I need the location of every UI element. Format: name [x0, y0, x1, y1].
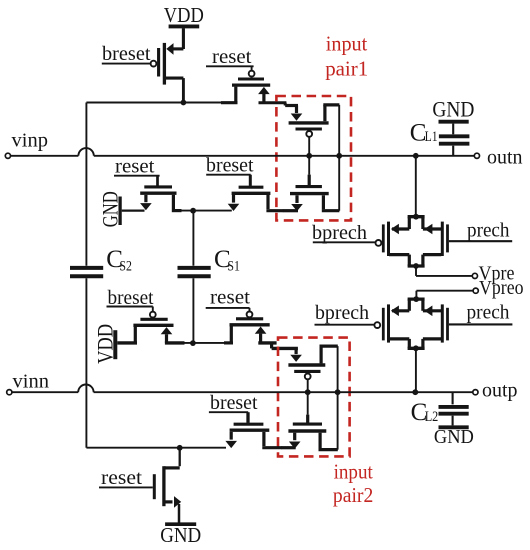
capacitor CL1 — [410, 119, 470, 156]
prech pair1 top node — [408, 214, 425, 220]
node dots on wire E inside pair2 — [305, 389, 341, 395]
wire outn node down to prech pair — [415, 156, 417, 215]
wire jog into input pair1 — [285, 103, 298, 106]
prech pair2 top node — [408, 296, 425, 302]
svg-text:input: input — [334, 460, 373, 484]
svg-text:bprech: bprech — [312, 223, 367, 244]
node dots on wire B inside pair1 — [306, 153, 342, 159]
wire CS1 down to row2 — [192, 278, 194, 343]
transistor M10 (breset NMOS, row1) — [206, 155, 283, 211]
transistor M6 (prech NMOS, pair1) — [423, 217, 448, 266]
transistor M13 (input pair2 PMOS) — [288, 346, 337, 392]
wire jog into input pair2 — [272, 343, 298, 349]
svg-text:VDD: VDD — [164, 3, 204, 27]
label vinp — [12, 131, 49, 152]
node dot outn branch — [413, 153, 419, 159]
node dot row2 — [190, 340, 196, 346]
power VDD (row2, rotated) — [93, 324, 118, 364]
label bprech (pair2) — [315, 303, 375, 325]
wire VDD to M1 — [182, 28, 185, 49]
transistor M3 (input pair1 PMOS) — [289, 105, 340, 156]
transistor M8 (prech NMOS, pair2) — [423, 299, 448, 348]
transistor M7 (bprech PMOS, pair2) — [374, 299, 409, 348]
transistor M11 (breset PMOS, row2) — [107, 288, 185, 343]
label prech (pair2) — [449, 303, 513, 325]
transistor M15 (breset NMOS, row3) — [209, 393, 282, 448]
transistor M1 (breset PMOS, top left) — [102, 43, 184, 103]
wire GND to M9 — [122, 210, 145, 212]
svg-text:vinp: vinp — [12, 131, 49, 152]
svg-text:bprech: bprech — [315, 303, 369, 324]
svg-text:reset: reset — [115, 156, 155, 177]
wire E (vinn to outp) with hopover — [12, 385, 473, 393]
prech pair1 bottom node — [408, 263, 425, 269]
ground GND (row1, rotated) — [98, 191, 123, 227]
ground GND (top right) — [432, 97, 474, 135]
label vinn — [13, 372, 50, 393]
ground GND (bottom) — [160, 523, 201, 547]
power VDD (top) — [164, 3, 204, 27]
node dot row3 — [177, 445, 183, 451]
label input pair1 — [325, 32, 368, 81]
wire and terminal Vpre — [416, 263, 515, 284]
svg-text:input: input — [326, 32, 368, 56]
svg-text:pair2: pair2 — [333, 483, 373, 507]
prech pair2 bottom node — [408, 345, 425, 351]
transistor M9 (reset NMOS, row1) — [114, 156, 182, 210]
terminal vinn — [7, 390, 12, 395]
transistor M2 (reset PMOS, top) — [206, 47, 286, 103]
wire row1 middle — [182, 210, 232, 212]
svg-text:outn: outn — [487, 147, 523, 168]
transistor M5 (bprech PMOS, pair1) — [376, 217, 410, 266]
transistor M16 (reset NMOS, bottom) — [99, 448, 181, 523]
wire node A horizontal — [86, 102, 236, 104]
wire node row1 down to CS1 — [192, 211, 194, 266]
label outn — [487, 147, 523, 168]
wire row2 middle — [185, 342, 225, 344]
transistor M4 (input pair1 NMOS) — [283, 156, 340, 211]
ground GND (below CL2) — [434, 426, 474, 448]
transistor M12 (reset PMOS, row2) — [206, 288, 277, 343]
svg-text:L2: L2 — [425, 409, 439, 425]
capacitor CS2 — [70, 246, 132, 276]
label prech (pair1) — [449, 220, 512, 241]
label input pair2 — [333, 460, 373, 507]
svg-text:L1: L1 — [425, 129, 438, 145]
capacitor CL2 — [411, 392, 469, 426]
svg-text:reset: reset — [101, 468, 143, 489]
wire prech pair2 to outp wire — [415, 348, 417, 392]
input pair2 dashed box — [278, 338, 350, 457]
wire left vertical (vinp/vinn column) — [85, 103, 87, 448]
svg-text:pair1: pair1 — [325, 57, 368, 81]
input pair1 dashed box — [276, 96, 351, 220]
svg-text:breset: breset — [102, 44, 151, 65]
svg-text:GND: GND — [432, 97, 474, 122]
svg-text:reset: reset — [210, 288, 251, 309]
svg-text:reset: reset — [212, 47, 252, 68]
terminal outn — [474, 153, 479, 158]
terminal vinp — [5, 153, 10, 158]
wire B (vinp to outn) with hopover — [11, 148, 475, 156]
svg-text:S1: S1 — [227, 258, 240, 274]
wire row3 horizontal — [86, 447, 226, 449]
terminal outp — [473, 390, 478, 395]
wire and terminal Vpreo — [416, 278, 523, 299]
svg-text:prech: prech — [467, 220, 510, 241]
svg-text:GND: GND — [434, 426, 474, 448]
svg-text:GND: GND — [160, 523, 201, 547]
node A junction dot — [181, 100, 187, 106]
wire pair2 right vertical — [337, 346, 339, 450]
svg-text:breset: breset — [210, 393, 258, 414]
svg-text:outp: outp — [482, 380, 518, 401]
svg-text:vinn: vinn — [13, 372, 50, 393]
node dot row1 — [190, 208, 196, 214]
transistor M14 (input pair2 NMOS) — [281, 392, 338, 449]
wire pair1 right vertical — [338, 105, 340, 211]
svg-text:S2: S2 — [119, 258, 131, 274]
capacitor CS1 — [178, 246, 240, 276]
svg-text:breset: breset — [206, 155, 254, 176]
label bprech (pair1) — [312, 223, 376, 244]
svg-text:Vpreo: Vpreo — [479, 278, 524, 299]
label outp — [482, 380, 518, 401]
svg-text:prech: prech — [467, 303, 510, 324]
node dot outp branch — [412, 389, 418, 395]
